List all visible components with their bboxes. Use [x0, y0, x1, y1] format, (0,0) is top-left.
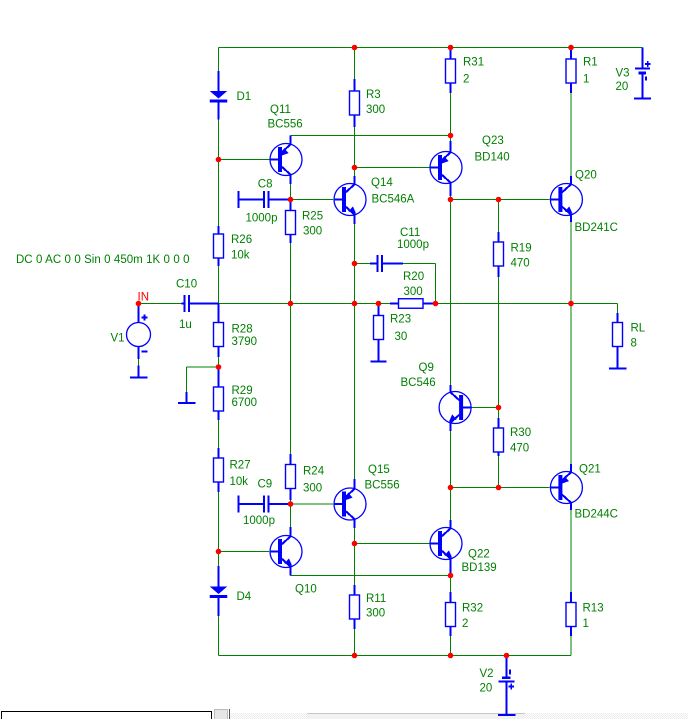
wire C11 tap wire	[354, 264, 356, 304]
junction bottom rail / R32	[448, 653, 454, 659]
wire C11 right wire	[403, 263, 436, 265]
wire bias node to ground stub	[187, 366, 219, 368]
svg-text:C11: C11	[400, 227, 420, 239]
wire Q10 collector rise	[290, 504, 292, 527]
wire VAS column down to Q9 collector	[450, 200, 452, 386]
wire Q9 emitter drop	[450, 431, 452, 488]
wire R28 bottom to bias node	[218, 357, 220, 367]
svg-text:R29: R29	[232, 385, 253, 397]
junction output node	[568, 301, 574, 307]
diode D1	[210, 71, 251, 120]
wire R24 bottom to C9 node	[290, 500, 292, 504]
resistor R3	[350, 79, 386, 127]
svg-text:C9: C9	[258, 479, 273, 491]
svg-text:BC556: BC556	[268, 119, 303, 131]
svg-text:300: 300	[366, 608, 385, 620]
resistor R11	[350, 585, 387, 629]
transistor Q23	[430, 135, 510, 196]
wire C11 to R20 right node	[435, 264, 437, 304]
transistor Q21	[550, 464, 618, 521]
svg-text:D1: D1	[237, 91, 252, 103]
svg-text:D4: D4	[237, 591, 252, 603]
resistor R27	[214, 448, 251, 492]
svg-text:1000p: 1000p	[246, 213, 278, 225]
wire ground stub drop	[186, 367, 188, 392]
junction Q10-Q22 emitter / R32	[448, 573, 454, 579]
svg-text:R20: R20	[403, 271, 424, 283]
junction input node / R23	[376, 301, 382, 307]
wire V3 column	[642, 48, 644, 69]
svg-text:300: 300	[366, 104, 385, 116]
wire Q10 emitter wire	[291, 575, 451, 577]
svg-text:1000p: 1000p	[243, 515, 275, 527]
wire R11 bottom to rail	[354, 629, 356, 656]
svg-text:V1: V1	[111, 333, 125, 345]
ground V1 ground	[130, 366, 148, 378]
ground RL ground	[609, 360, 627, 369]
wire Q23 base wire	[355, 167, 438, 169]
junction Q14 emitter / C11	[352, 261, 358, 267]
wire R31 bottom to emitter rail	[450, 93, 452, 136]
wire R1 bottom to Q20 collector	[570, 93, 572, 176]
junction R3 / Q14 collector / Q23 base	[352, 165, 358, 171]
wire bias node to R29	[218, 367, 220, 386]
wire Q21 emitter to output	[570, 304, 572, 465]
svg-text:1u: 1u	[179, 319, 192, 331]
svg-text:BD241C: BD241C	[575, 222, 618, 234]
resistor RL	[613, 313, 646, 360]
wire R20 right to output wire	[436, 303, 572, 305]
wire top supply rail	[219, 47, 643, 49]
wire R3 column top	[354, 48, 356, 80]
resistor R32	[446, 592, 484, 636]
svg-text:R31: R31	[463, 57, 484, 69]
junction C8 / Q11 collector / Q14 base	[288, 197, 294, 203]
transistor Q10	[270, 527, 317, 596]
svg-text:Q11: Q11	[270, 104, 291, 116]
svg-text:R30: R30	[510, 427, 531, 439]
svg-text:2: 2	[463, 74, 469, 86]
wire C8 node to Q14 base	[291, 199, 334, 201]
wire C11 left wire	[355, 263, 372, 265]
svg-text:BC546A: BC546A	[372, 194, 415, 206]
wire Q22 emitter to node	[450, 558, 452, 576]
resistor R25	[286, 200, 324, 244]
ground R29 bias ground	[178, 392, 196, 403]
scrollbar thumb	[307, 713, 525, 719]
svg-text:BD140: BD140	[475, 152, 510, 164]
capacitor C9	[239, 479, 291, 528]
junction VAS / R19	[496, 197, 502, 203]
svg-text:R26: R26	[231, 234, 252, 246]
wire R27 bottom to lower bias node	[218, 492, 220, 552]
svg-text:Q15: Q15	[368, 464, 390, 476]
wire Q23 emitter stub wire	[450, 136, 452, 142]
svg-text:470: 470	[510, 443, 529, 455]
wire node to R11	[354, 544, 356, 586]
svg-text:1: 1	[583, 618, 589, 630]
junction Q15 collector / R11 / Q22 base	[352, 541, 358, 547]
svg-text:10k: 10k	[230, 476, 249, 488]
transistor Q11	[268, 104, 303, 184]
wire R31 column top	[450, 48, 452, 59]
wire input node down to R24	[290, 304, 292, 455]
svg-text:BC556: BC556	[365, 480, 400, 492]
junction R28-R29 bias node	[216, 364, 222, 370]
wire emitter rail y135	[291, 135, 451, 137]
junction top rail / R3	[352, 45, 358, 51]
wire lower rail y487	[451, 487, 550, 489]
ground R23 ground	[371, 352, 387, 362]
wire Q21 collector to R13	[570, 510, 572, 592]
svg-text:Q20: Q20	[575, 170, 597, 182]
ground V2 ground	[498, 714, 516, 716]
wire Q23 collector to VAS node	[450, 191, 452, 200]
transistor Q22	[430, 520, 497, 574]
junction node IN	[136, 301, 142, 307]
svg-text:Q23: Q23	[482, 135, 504, 147]
svg-text:R28: R28	[232, 324, 253, 336]
wire R29 to R27 column	[218, 420, 220, 457]
junction top rail / R31	[448, 45, 454, 51]
wire left column top	[218, 48, 220, 72]
wire Q9 base node wire	[471, 407, 499, 409]
wire input wire IN to C10	[141, 303, 182, 305]
diode D4	[210, 566, 252, 616]
wire Q14 collector wire	[354, 168, 356, 177]
wire V2 drop	[506, 656, 508, 669]
svg-text:3790: 3790	[232, 336, 258, 348]
wire RL drop	[617, 304, 619, 314]
wire VAS node wire	[451, 199, 499, 201]
wire R3 bottom to Q14 collector node	[354, 127, 356, 168]
resistor R23	[374, 304, 412, 353]
wire R25 bottom to input node	[290, 243, 292, 304]
junction bottom rail / R11	[352, 653, 358, 659]
resistor R28	[214, 304, 258, 358]
wire output wire to RL corner	[571, 303, 618, 305]
wire lower bias to D4	[218, 552, 220, 567]
junction lower rail / R30	[496, 485, 502, 491]
svg-text:DC 0 AC 0 0 Sin 0 450m 1K 0 0: DC 0 AC 0 0 Sin 0 450m 1K 0 0 0	[16, 254, 190, 266]
junction R27 / D4 / Q10 base	[216, 549, 222, 555]
svg-text:BD139: BD139	[462, 562, 497, 574]
wire Q14-Q15 emitter column	[354, 304, 356, 480]
svg-text:BD244C: BD244C	[575, 509, 618, 521]
wire R19 top wire	[498, 200, 500, 233]
wire center to R23 tap	[355, 303, 379, 305]
svg-text:R13: R13	[583, 603, 604, 615]
junction C9 / Q10 collector / Q15 base	[288, 501, 294, 507]
wire R23 tap to R20 left	[379, 303, 391, 305]
svg-text:V3: V3	[616, 68, 630, 80]
svg-text:C8: C8	[258, 179, 273, 191]
svg-text:RL: RL	[631, 323, 646, 335]
junction bottom rail / V2	[504, 653, 510, 659]
wire R30 top wire	[498, 408, 500, 419]
junction Q9 base / R19-R30	[496, 405, 502, 411]
resistor R24	[286, 454, 325, 500]
svg-text:Q9: Q9	[419, 362, 434, 374]
resistor R29	[214, 367, 258, 420]
wire Q11 collector drop	[290, 184, 292, 200]
wire Q22 emitter node to R32	[450, 576, 452, 593]
resistor R26	[214, 226, 253, 266]
svg-text:30: 30	[395, 331, 408, 343]
wire R30 bottom wire	[498, 456, 500, 488]
resistor R13	[566, 592, 604, 636]
svg-text:C10: C10	[176, 279, 197, 291]
svg-text:R11: R11	[366, 593, 386, 605]
wire R32 bottom to rail	[450, 636, 452, 656]
resistor R30	[494, 418, 532, 456]
wire D4 bottom to rail	[218, 616, 220, 656]
wire input node to center	[291, 303, 355, 305]
resistor R1	[566, 48, 598, 94]
wire Q20 emitter to output	[570, 222, 572, 304]
transistor Q9	[401, 362, 472, 431]
junction Q23 collector VAS	[448, 197, 454, 203]
junction input node / R25-R24	[288, 301, 294, 307]
wire VAS to Q20 base	[499, 199, 550, 201]
junction lower rail / Q9 emitter	[448, 485, 454, 491]
resistor R19	[494, 232, 532, 277]
svg-text:R23: R23	[390, 314, 411, 326]
wire bottom rail	[219, 655, 572, 657]
junction top rail / R1	[568, 45, 574, 51]
svg-text:470: 470	[511, 258, 530, 270]
svg-text:10k: 10k	[231, 250, 250, 262]
capacitor C8	[239, 179, 291, 225]
svg-text:R25: R25	[302, 211, 323, 223]
wire Q22 collector rise	[450, 488, 452, 521]
svg-text:1000p: 1000p	[397, 239, 429, 251]
svg-text:Q22: Q22	[468, 549, 490, 561]
tab scroll button	[215, 709, 230, 719]
wire Q11 base wire	[219, 159, 270, 161]
transistor Q14	[334, 176, 415, 224]
wire Q14 emitter wire	[354, 224, 356, 264]
wire Q15 collector node to Q22 base	[355, 543, 430, 545]
wire D1 cathode to node IN1	[218, 120, 220, 232]
svg-text:Q14: Q14	[371, 177, 393, 189]
svg-text:Q10: Q10	[295, 584, 317, 596]
wire C9 node to Q15 base	[291, 503, 334, 505]
battery V2	[480, 656, 515, 716]
svg-text:8: 8	[631, 338, 637, 350]
capacitor C10	[176, 279, 219, 332]
junction emitter rail / R31	[448, 133, 454, 139]
resistor R31	[446, 48, 485, 94]
svg-text:300: 300	[303, 226, 322, 238]
svg-text:R1: R1	[583, 57, 598, 69]
junction D1 / R26 / Q11 base	[216, 157, 222, 163]
wire Q11 emitter riser	[290, 136, 292, 145]
wire lower bias node to Q10 base	[219, 551, 270, 553]
capacitor C11	[370, 227, 429, 272]
svg-text:300: 300	[303, 483, 322, 495]
svg-text:300: 300	[404, 286, 423, 298]
wire R13 bottom to rail corner	[570, 636, 572, 656]
junction input node / emitter column	[352, 301, 358, 307]
svg-text:R3: R3	[366, 89, 381, 101]
svg-text:1: 1	[583, 74, 589, 86]
battery V3	[616, 48, 651, 99]
svg-text:R24: R24	[303, 466, 325, 478]
svg-text:BC546: BC546	[401, 377, 436, 389]
transistor Q20	[550, 170, 618, 235]
resistor R20	[390, 271, 436, 308]
junction R20 right / C11 right	[433, 301, 439, 307]
page tab box	[2, 712, 212, 719]
svg-text:V2: V2	[480, 668, 494, 680]
wire R26-R28 column through input	[218, 266, 220, 322]
svg-text:6700: 6700	[232, 397, 258, 409]
ground V3 ground	[634, 98, 651, 100]
wire C10 to input node	[219, 303, 291, 305]
wire Q15 collector to node	[354, 528, 356, 544]
transistor Q15	[334, 464, 400, 528]
svg-text:20: 20	[616, 81, 629, 93]
source V1	[111, 304, 151, 367]
svg-text:20: 20	[480, 683, 493, 695]
svg-text:Q21: Q21	[579, 464, 601, 476]
svg-text:R27: R27	[230, 460, 251, 472]
svg-text:R19: R19	[511, 243, 532, 255]
wire R19 bottom to Q9 base node	[498, 277, 500, 408]
wire R1 column top	[570, 48, 572, 59]
svg-text:2: 2	[462, 618, 468, 630]
svg-text:R32: R32	[462, 603, 483, 615]
